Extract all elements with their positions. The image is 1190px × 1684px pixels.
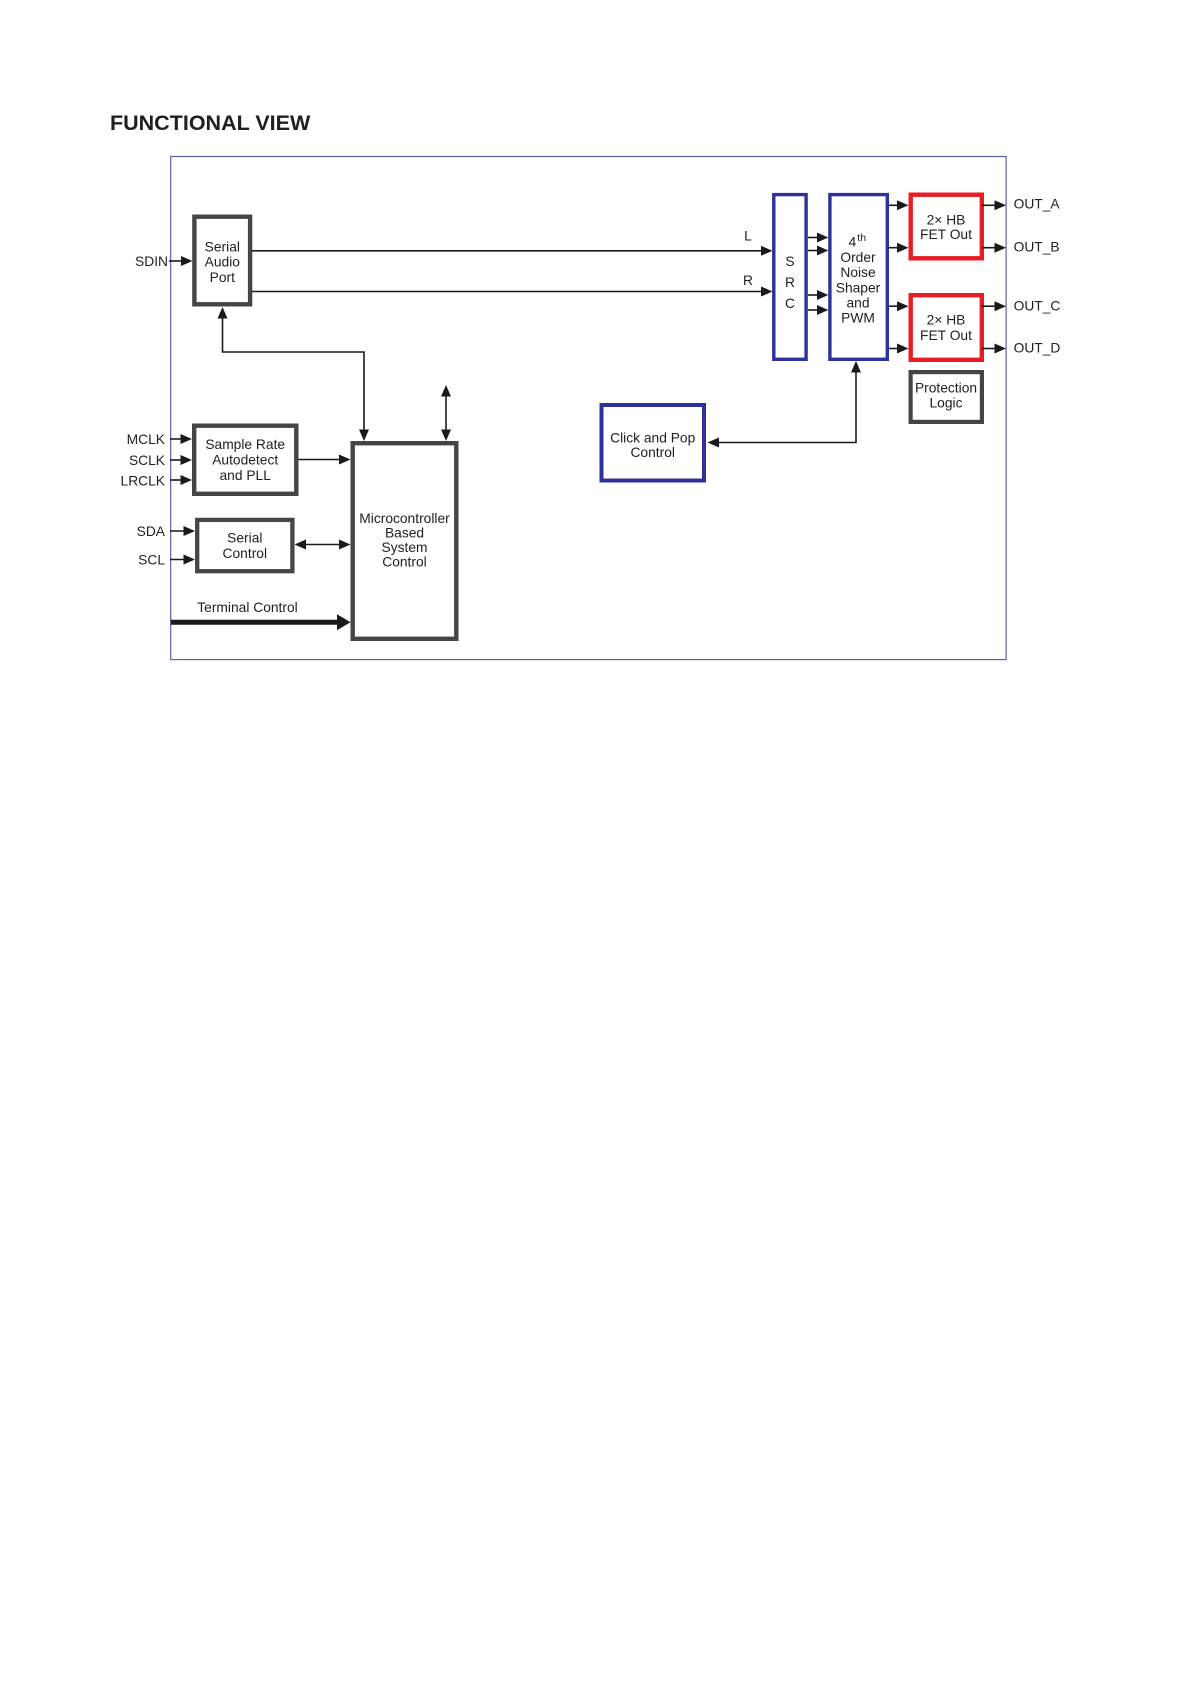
pin label SCLK [129, 453, 166, 468]
wire Serial Audio Port to Microcontroller (double-headed elbow) [218, 307, 370, 441]
wire SCLK to Sample Rate [170, 455, 192, 465]
svg-text:L: L [744, 229, 752, 244]
svg-text:MCLK: MCLK [127, 432, 166, 447]
frame border [171, 157, 1006, 660]
wire FET top to OUT_B [982, 243, 1006, 253]
title FUNCTIONAL VIEW [110, 111, 311, 135]
wire double-headed stub above Microcontroller [441, 385, 451, 441]
wire R (Serial Audio Port to SRC) [252, 287, 773, 297]
wire SCL to Serial Control [170, 555, 195, 565]
wire SRC to PWM arrow 1 [808, 233, 828, 243]
svg-text:PWM: PWM [841, 311, 875, 326]
wire SDIN to Serial Audio Port [169, 256, 193, 266]
pin label OUT_B [1014, 240, 1060, 255]
block Click and Pop Control [602, 405, 705, 481]
svg-text:Control: Control [223, 546, 267, 561]
svg-text:R: R [743, 273, 753, 288]
wire L (Serial Audio Port to SRC) [252, 246, 773, 256]
wire SRC to PWM arrow 2 [808, 246, 828, 256]
svg-text:OUT_C: OUT_C [1014, 299, 1061, 314]
wire Terminal Control (thick) to Microcontroller [171, 614, 351, 630]
wire Click and Pop to PWM (double-headed elbow) [708, 361, 862, 448]
svg-text:Microcontroller: Microcontroller [359, 511, 450, 526]
wire PWM to FET top arrow 2 [889, 243, 909, 253]
svg-text:Shaper: Shaper [836, 281, 881, 296]
svg-text:SDA: SDA [137, 524, 166, 539]
svg-text:C: C [785, 296, 795, 311]
svg-text:Serial: Serial [205, 240, 240, 255]
wire PWM to FET bottom arrow 1 [889, 301, 909, 311]
svg-text:SDIN: SDIN [135, 254, 168, 269]
svg-text:Serial: Serial [227, 531, 262, 546]
pin label LRCLK [121, 474, 166, 489]
svg-text:OUT_D: OUT_D [1014, 341, 1061, 356]
svg-text:LRCLK: LRCLK [121, 474, 166, 489]
svg-text:FUNCTIONAL VIEW: FUNCTIONAL VIEW [110, 111, 311, 135]
pin label SCL [138, 553, 165, 568]
svg-text:2× HB: 2× HB [927, 313, 966, 328]
svg-text:2× HB: 2× HB [927, 213, 966, 228]
wire MCLK to Sample Rate [170, 434, 192, 444]
pin label OUT_D [1014, 341, 1061, 356]
svg-text:Protection: Protection [915, 381, 977, 396]
node label Terminal Control [197, 600, 297, 615]
pin label MCLK [127, 432, 166, 447]
wire SDA to Serial Control [170, 526, 195, 536]
wire SRC to PWM arrow 4 [808, 305, 828, 315]
block SRC [774, 195, 806, 360]
pin label OUT_A [1014, 197, 1061, 212]
svg-text:Sample Rate: Sample Rate [205, 437, 285, 452]
svg-text:FET Out: FET Out [920, 227, 972, 242]
wire FET top to OUT_A [982, 200, 1006, 210]
svg-text:SCL: SCL [138, 553, 165, 568]
svg-text:Based: Based [385, 526, 424, 541]
svg-text:FET Out: FET Out [920, 328, 972, 343]
svg-text:Order: Order [840, 250, 876, 265]
svg-text:Control: Control [630, 445, 674, 460]
block Serial Audio Port [194, 217, 250, 305]
block 4th Order Noise Shaper and PWM [830, 195, 887, 360]
svg-text:Audio: Audio [205, 255, 241, 270]
wire PWM to FET bottom arrow 2 [889, 344, 909, 354]
block 2x HB FET Out (top) [911, 195, 982, 259]
wire Serial Control to Microcontroller (double-headed) [295, 540, 351, 550]
wire PWM to FET top arrow 1 [889, 200, 909, 210]
wire FET bottom to OUT_D [982, 344, 1006, 354]
svg-text:Terminal Control: Terminal Control [197, 600, 297, 615]
pin label SDIN [135, 254, 168, 269]
svg-text:Noise: Noise [840, 265, 876, 280]
node label L [744, 229, 752, 244]
pin label OUT_C [1014, 299, 1061, 314]
block 2x HB FET Out (bottom) [911, 295, 982, 360]
block Protection Logic [911, 372, 982, 422]
svg-text:Logic: Logic [930, 395, 963, 410]
svg-text:Port: Port [210, 270, 235, 285]
svg-text:Autodetect: Autodetect [212, 453, 278, 468]
wire LRCLK to Sample Rate [170, 475, 192, 485]
svg-text:Control: Control [382, 555, 426, 570]
svg-text:S: S [785, 254, 794, 269]
svg-text:OUT_A: OUT_A [1014, 197, 1061, 212]
svg-text:OUT_B: OUT_B [1014, 240, 1060, 255]
wire FET bottom to OUT_C [982, 301, 1006, 311]
block Sample Rate Autodetect and PLL [194, 426, 296, 494]
svg-text:System: System [382, 540, 428, 555]
block Microcontroller Based System Control [353, 443, 457, 639]
wire Sample Rate to Microcontroller [299, 455, 351, 465]
block Serial Control [197, 520, 292, 571]
svg-text:Click and Pop: Click and Pop [610, 431, 695, 446]
node label R [743, 273, 753, 288]
svg-text:SCLK: SCLK [129, 453, 166, 468]
svg-text:and: and [846, 296, 869, 311]
svg-text:R: R [785, 275, 795, 290]
wire SRC to PWM arrow 3 [808, 290, 828, 300]
svg-text:and PLL: and PLL [219, 468, 271, 483]
pin label SDA [137, 524, 166, 539]
